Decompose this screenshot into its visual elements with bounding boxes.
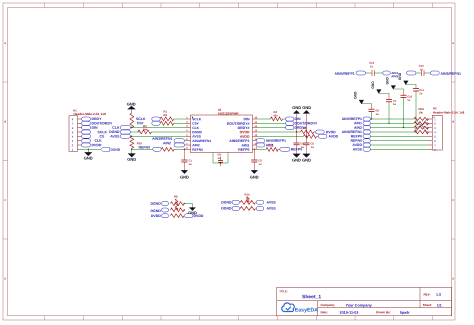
wire AVDD row: [258, 135, 318, 137]
svg-text:AIN2: AIN2: [354, 126, 362, 130]
net flag AIN3/REFN1 top: [431, 71, 461, 76]
ground GND below H1: [84, 149, 93, 161]
wires H2 rows: [371, 119, 428, 149]
net flag AIN0/REFP1: [256, 139, 286, 143]
svg-text:R3: R3: [143, 124, 147, 128]
svg-text:Header-Male-2.54_1x8: Header-Male-2.54_1x8: [433, 111, 465, 115]
svg-text:REFN0: REFN0: [139, 145, 151, 149]
svg-text:Sheet:: Sheet:: [423, 303, 432, 307]
svg-text:CLK: CLK: [112, 126, 120, 130]
capacitor C13: [416, 64, 426, 76]
wire C13 to AIN3/REFN1: [426, 72, 431, 74]
svg-text:DVDD: DVDD: [240, 130, 250, 134]
net flag DVDD at H1 pin 2: [82, 143, 102, 147]
svg-text:AIN3/REFN1: AIN3/REFN1: [152, 137, 172, 141]
svg-text:AVSS: AVSS: [353, 147, 363, 151]
net flag CLK at H1 pin 3: [82, 139, 103, 143]
svg-text:GND: GND: [250, 174, 259, 179]
net flag DGND bl2: [150, 208, 168, 213]
wire C12 to AIN1: [376, 72, 383, 74]
svg-text:DGND: DGND: [192, 130, 202, 134]
svg-text:GND: GND: [371, 81, 375, 89]
resistor R8b: [171, 208, 185, 212]
ground GND below C5: [302, 154, 311, 163]
svg-text:GND: GND: [127, 101, 136, 106]
svg-text:REV:: REV:: [423, 293, 430, 297]
svg-text:Date:: Date:: [320, 310, 328, 314]
capacitor C7: [386, 93, 397, 124]
wire DRDY: [258, 127, 286, 129]
svg-text:AIN3/REFN1: AIN3/REFN1: [342, 130, 362, 134]
wire H1 pin1 to DGND: [78, 148, 101, 150]
svg-text:CS#: CS#: [137, 121, 144, 125]
ground GND above C4: [292, 105, 301, 114]
wire to GND bl: [184, 203, 193, 211]
ground GND top of column: [127, 101, 136, 113]
resistor R2: [160, 113, 174, 125]
net flag AIN2 label: [391, 74, 398, 78]
ground GND below C4: [292, 154, 301, 163]
svg-text:AVDD: AVDD: [240, 135, 250, 139]
svg-text:GND: GND: [386, 76, 390, 84]
svg-text:AVDD: AVDD: [328, 135, 338, 139]
net flag AIN0/REFP1 top: [334, 71, 365, 76]
resistor R8a: [171, 195, 185, 206]
svg-text:DIN: DIN: [243, 117, 250, 121]
net flag DVDD bl3: [151, 214, 169, 218]
ground GND below C1: [180, 170, 189, 179]
resistor R11: [161, 148, 174, 152]
svg-text:AIN2: AIN2: [163, 141, 171, 145]
svg-text:Header-Male-2.54_1x8: Header-Male-2.54_1x8: [73, 112, 106, 116]
capacitor C12: [366, 61, 376, 76]
svg-text:DIN: DIN: [91, 126, 98, 130]
svg-text:AIN1: AIN1: [242, 143, 250, 147]
svg-text:DVDD: DVDD: [193, 214, 203, 218]
wire DOUT: [258, 122, 286, 124]
svg-text:REFP0: REFP0: [238, 148, 249, 152]
net flag DRDY at H1 pin 8: [82, 117, 103, 121]
net flag DGND at H1 pin1: [101, 147, 121, 152]
svg-text:DIN: DIN: [294, 117, 301, 121]
resistor R9 vertical: [175, 199, 178, 210]
capacitor C10: [401, 89, 413, 128]
svg-text:DRDY#: DRDY#: [238, 126, 250, 130]
resistor R13b: [240, 207, 256, 211]
svg-text:1.0: 1.0: [436, 293, 441, 297]
svg-text:CS: CS: [99, 135, 105, 139]
svg-text:B: B: [4, 120, 6, 123]
title block: [277, 287, 452, 316]
junction DVDD row: [296, 131, 307, 132]
svg-text:DRDY: DRDY: [91, 117, 102, 121]
wire IC bottom pins: [213, 153, 228, 164]
svg-text:REFP0: REFP0: [351, 134, 362, 138]
net flag CS at H1 pin 4: [82, 134, 106, 138]
svg-text:D: D: [452, 277, 454, 280]
net flag DGND br2: [221, 206, 239, 210]
ground GND at C11: [398, 72, 416, 85]
net flag REFN0 at H2 row: [351, 139, 371, 143]
net flag AIN1 at H2 row: [354, 121, 370, 125]
net flag AVDD: [318, 134, 338, 138]
junction AVDD row: [296, 136, 307, 137]
resistor R1: [160, 110, 174, 121]
wire DVDD row: [258, 131, 316, 133]
resistor R10b: [171, 214, 185, 218]
ground GND above C5: [302, 105, 311, 114]
title text Sheet_1: [279, 289, 321, 300]
svg-text:AIN0/REFP1: AIN0/REFP1: [334, 72, 354, 76]
wire column to ground: [131, 136, 132, 154]
capacitor C9: [217, 153, 223, 167]
resistor R5 vertical: [130, 113, 134, 128]
resistor R13a: [240, 193, 256, 205]
svg-text:AVSS: AVSS: [192, 135, 201, 139]
svg-text:DGND: DGND: [109, 130, 120, 134]
svg-text:EasyEDA: EasyEDA: [295, 308, 319, 314]
svg-text:R12: R12: [268, 144, 273, 147]
net flag SCLK at H1 pin 5: [82, 130, 108, 134]
company row: [320, 303, 372, 308]
svg-text:AIN0/REFP1: AIN0/REFP1: [229, 139, 249, 143]
svg-text:GND: GND: [354, 91, 358, 99]
resistor R4: [271, 110, 283, 121]
wire CS# to IC: [174, 122, 186, 124]
svg-text:Your Company: Your Company: [345, 304, 372, 308]
svg-text:DOUT/DRDY#: DOUT/DRDY#: [294, 122, 317, 126]
wire REFP0 row: [258, 148, 280, 150]
svg-text:GND: GND: [180, 174, 189, 179]
net flag AIN0/REFP1 at H2 row: [342, 117, 371, 121]
net flag DVDD right bl: [185, 214, 204, 218]
date row: [320, 310, 410, 315]
ground GND bottom-left group: [188, 208, 197, 216]
svg-text:U1: U1: [218, 108, 222, 112]
net flag AIN1: [256, 143, 274, 147]
svg-text:CLK: CLK: [192, 126, 199, 130]
net flag DIN at H1 pin 6: [82, 126, 99, 130]
svg-text:B: B: [452, 120, 454, 123]
junction on CLK row: [131, 127, 132, 128]
capacitor C11: [413, 84, 424, 132]
svg-text:GND: GND: [292, 105, 301, 110]
svg-text:GND: GND: [398, 72, 402, 80]
svg-text:ADS1220IPWR: ADS1220IPWR: [218, 112, 240, 116]
svg-text:AIN2: AIN2: [192, 143, 200, 147]
svg-text:AVSS: AVSS: [266, 201, 276, 205]
IC U1 ADS1220IPWR: [185, 108, 258, 153]
svg-text:DGND: DGND: [221, 200, 232, 204]
svg-text:DOUT/DRDY#: DOUT/DRDY#: [227, 122, 250, 126]
capacitor C5 column: [303, 113, 314, 154]
ground GND bottom of column: [127, 154, 136, 162]
svg-text:GND: GND: [84, 155, 93, 160]
svg-text:AIN0/REFP1: AIN0/REFP1: [266, 139, 286, 143]
net flag AVSS br1: [256, 200, 276, 204]
net flag AVSS br2: [256, 207, 276, 211]
svg-text:AVSS: AVSS: [110, 134, 120, 138]
net flag REFP0 at H2 row: [351, 134, 371, 138]
svg-text:1/1: 1/1: [437, 304, 442, 308]
svg-text:AVSS: AVSS: [266, 207, 276, 211]
svg-text:AIN0/REFP1: AIN0/REFP1: [342, 117, 362, 121]
svg-text:GND: GND: [292, 157, 301, 162]
svg-text:Company:: Company:: [320, 303, 335, 307]
svg-text:SCLK: SCLK: [136, 117, 146, 121]
svg-text:Drawn By:: Drawn By:: [376, 310, 391, 314]
sheet row: [423, 303, 442, 308]
wire CLK to IC: [131, 127, 186, 129]
resistor network RN1: [414, 107, 429, 134]
wire DIN: [258, 118, 286, 120]
capacitor C2: [251, 149, 262, 171]
net flag DRDY#: [286, 126, 307, 130]
resistor R7: [304, 135, 317, 139]
resistor R15 vertical: [130, 136, 142, 148]
svg-text:DOUT/DRDY: DOUT/DRDY: [91, 122, 112, 126]
svg-text:REFN0: REFN0: [192, 148, 203, 152]
svg-text:CLK: CLK: [94, 139, 102, 143]
net flag AIN3/REFN1: [152, 137, 185, 143]
net flag DIN: [286, 117, 302, 121]
svg-text:DVDD: DVDD: [326, 130, 336, 134]
net flag AVDD at H2 row: [352, 143, 370, 147]
net flag AIN1 top: [383, 71, 399, 75]
svg-text:DGND: DGND: [150, 202, 161, 206]
svg-text:SCLK: SCLK: [97, 130, 107, 134]
EasyEDA logo: [282, 303, 319, 314]
net flag AVSS at H2 row: [353, 147, 371, 151]
rev text: [423, 293, 441, 297]
svg-text:AIN3/REFN1: AIN3/REFN1: [192, 139, 211, 143]
svg-text:AVDD: AVDD: [352, 143, 362, 147]
svg-text:GND: GND: [302, 157, 311, 162]
wire SCLK to IC: [174, 118, 186, 120]
capacitor C4 column: [294, 113, 305, 154]
svg-text:GND: GND: [127, 157, 136, 162]
svg-text:CS#: CS#: [192, 122, 199, 126]
svg-text:AIN3/REFN1: AIN3/REFN1: [440, 72, 460, 76]
svg-text:A: A: [4, 42, 6, 45]
resistor R3: [138, 124, 152, 134]
net flag AIN2 top: [407, 71, 417, 75]
svg-text:DVDD: DVDD: [151, 214, 161, 218]
svg-text:DVDD: DVDD: [91, 143, 101, 147]
svg-text:A: A: [452, 42, 454, 45]
ground GND at C7: [371, 81, 389, 94]
svg-text:47k: 47k: [273, 115, 278, 118]
svg-text:C: C: [4, 199, 6, 202]
net flag DOUT/DRDY#: [286, 121, 318, 125]
svg-text:C: C: [452, 199, 454, 202]
svg-text:lipa4r: lipa4r: [400, 311, 411, 315]
capacitor C6: [369, 104, 380, 120]
ground GND at C10: [386, 76, 404, 89]
net flag DGND: [109, 130, 130, 134]
svg-text:Sheet_1: Sheet_1: [302, 294, 321, 300]
net flag DOUT/DRDY at H1 pin 7: [82, 121, 113, 125]
wire DGND to IC: [131, 131, 186, 133]
net flag AIN3/REFN1 at H2 row: [342, 130, 371, 134]
ground GND at C6: [354, 91, 372, 104]
wire REFN0 row: [132, 148, 153, 150]
net flag CS#: [137, 121, 161, 125]
resistor R6: [301, 127, 314, 134]
capacitor C1: [181, 149, 192, 171]
svg-text:D: D: [4, 277, 6, 280]
resistor R12: [266, 144, 278, 151]
ground GND below C2: [250, 170, 259, 179]
wire AVSS to IC: [131, 135, 186, 137]
svg-text:DGND: DGND: [110, 148, 120, 152]
svg-text:2019-11-02: 2019-11-02: [339, 311, 358, 315]
svg-text:GND: GND: [302, 105, 311, 110]
net flag CLK: [112, 126, 130, 130]
svg-text:DGND: DGND: [221, 206, 232, 210]
svg-text:DGND: DGND: [150, 209, 161, 213]
svg-text:SCLK: SCLK: [192, 117, 202, 121]
net flag DVDD: [316, 130, 336, 134]
net flag REFP0: [280, 147, 302, 151]
svg-text:AIN1: AIN1: [354, 121, 362, 125]
connector H2 Header-Male-2.54_1x8: [427, 106, 465, 152]
net flag DGND br1: [221, 200, 239, 204]
net flag AIN2 at H2 row: [354, 126, 370, 130]
net flag AVSS: [110, 134, 130, 138]
svg-text:AIN2: AIN2: [391, 74, 398, 78]
net flag SCLK: [136, 117, 160, 121]
svg-text:REFN0: REFN0: [351, 139, 363, 143]
wire REFN0 to IC: [174, 148, 185, 150]
connector H1 Header-Male-2.54_1x8: [69, 109, 106, 152]
net flag REFN0: [139, 145, 162, 151]
net flag DGND bl1: [150, 202, 168, 206]
net flag AIN2: [163, 141, 185, 147]
